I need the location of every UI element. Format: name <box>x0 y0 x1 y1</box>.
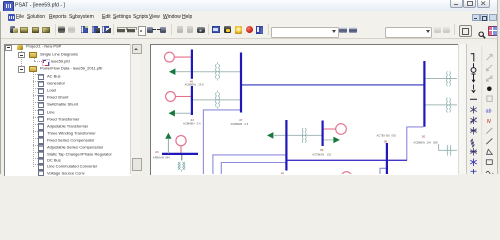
bus 39 <box>322 120 324 146</box>
wire elbow at bus38 <box>380 168 386 174</box>
svg-text:38: 38 <box>384 139 388 143</box>
bus 49 <box>285 120 287 171</box>
transformer line T1 <box>193 70 240 72</box>
shunt stem <box>181 154 183 159</box>
transformer line T5 <box>426 103 458 105</box>
transformer line T6 elbow <box>439 144 457 150</box>
tree panel <box>4 44 131 176</box>
palette btn adjustable transformer <box>470 116 476 124</box>
node labels <box>153 79 438 175</box>
svg-text:ACBMEM 0.6: ACBMEM 0.6 <box>231 122 249 126</box>
wire elbow to bus49 upper <box>213 154 286 174</box>
svg-text:47: 47 <box>239 118 243 122</box>
bus 43 <box>191 86 193 115</box>
palette btn polygon <box>487 149 493 154</box>
palette btn grayed 3 <box>487 75 493 81</box>
menu bar <box>1 11 499 22</box>
palette btn series comp <box>471 138 475 146</box>
load arrow A4 right <box>333 136 339 143</box>
generator arrow A5 up <box>165 132 171 138</box>
palette btn grayed 1 <box>487 54 493 101</box>
palette btn adj series comp <box>470 148 477 156</box>
transformer coil T4 <box>446 71 449 86</box>
generator G5 <box>176 135 186 145</box>
bus 47 <box>240 52 242 112</box>
svg-text:ACTBIGN 132: ACTBIGN 132 <box>312 152 331 156</box>
generator G1 <box>165 52 175 62</box>
palette btn load <box>472 74 476 81</box>
line L1 bus47-bus50 <box>241 83 424 85</box>
svg-text:N: N <box>487 118 491 124</box>
line bus49 to corner (long) <box>287 159 407 161</box>
load arrow A3 <box>267 132 273 139</box>
transformer coil T1 <box>178 62 451 172</box>
toolbar <box>1 22 499 39</box>
load/transformer line at bus49-bus39 <box>274 134 322 136</box>
svg-text:ACBMEN 0.4: ACBMEN 0.4 <box>183 121 201 125</box>
svg-text:43: 43 <box>191 117 195 121</box>
load arrow A2 <box>169 109 175 116</box>
svg-text:ACBMEN 134 008: ACBMEN 134 008 <box>413 140 438 144</box>
transformer line T4 <box>426 77 458 79</box>
palette btn dc bus blue <box>471 169 477 175</box>
wire line bus43-to-bus47 violet L <box>203 109 423 174</box>
bus 46 <box>191 49 193 78</box>
generator G3 <box>336 123 347 134</box>
bus 38 <box>386 143 388 175</box>
transformer line T2 <box>193 98 240 100</box>
svg-text:43: 43 <box>155 150 159 154</box>
load line A1 <box>175 70 191 72</box>
svg-text:APBAAN 044: APBAAN 044 <box>153 155 170 159</box>
bus 48 horizontal <box>162 152 198 154</box>
palette btn grayed 5 <box>487 96 492 101</box>
svg-text:46: 46 <box>190 79 194 83</box>
palette btn 3w transformer <box>470 127 476 135</box>
palette btn rect <box>486 159 492 164</box>
wire bus49-bus50 upper part <box>407 126 424 159</box>
palette btn line <box>470 98 477 100</box>
svg-text:ab: ab <box>486 108 492 114</box>
title bar <box>0 0 500 12</box>
transformer coil T6 <box>446 145 449 155</box>
svg-text:49: 49 <box>281 171 285 174</box>
palette btn grayed 2 <box>487 65 493 71</box>
palette btn bus <box>471 53 476 81</box>
generator G5 lead <box>180 145 182 153</box>
generator G3 lead <box>324 128 336 130</box>
palette btn wave <box>486 171 493 174</box>
svg-text:ACTBY BU 030: ACTBY BU 030 <box>377 133 397 137</box>
generator G2 lead <box>176 95 191 97</box>
svg-text:50: 50 <box>422 134 426 138</box>
generator G1 lead <box>175 56 192 58</box>
transformer coil T2 <box>215 92 218 107</box>
svg-text:39: 39 <box>320 148 324 152</box>
transformer coil T5 <box>446 97 449 112</box>
generator G2 <box>166 91 176 101</box>
schematic canvas <box>150 44 458 176</box>
transformer coil T3 <box>301 128 304 143</box>
generator G4 partial <box>341 171 352 182</box>
load line A2 <box>175 112 192 114</box>
palette btn diag line <box>486 127 492 133</box>
palette btn shunt <box>472 84 476 91</box>
palette btn fixed transformer <box>470 106 476 114</box>
load line A4 <box>324 138 334 140</box>
shunt coils <box>178 162 180 170</box>
load arrow A1 <box>169 68 175 75</box>
palette btn dot <box>487 86 492 91</box>
palette btn stc blue <box>470 158 476 174</box>
palette btn generator <box>471 67 476 72</box>
wire elbow to bus49 lower <box>221 162 285 174</box>
bus 50 <box>423 61 425 127</box>
palette <box>466 44 498 175</box>
svg-text:ACBMEN 13.8: ACBMEN 13.8 <box>185 82 204 86</box>
